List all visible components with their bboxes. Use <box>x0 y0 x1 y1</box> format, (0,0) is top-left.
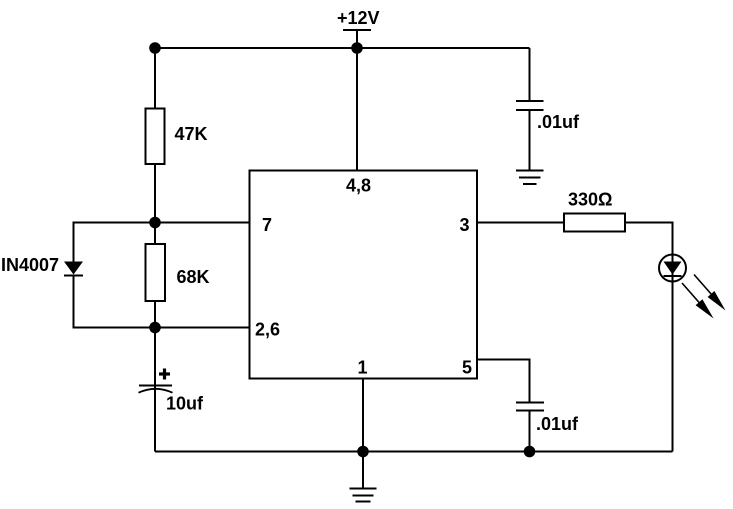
wire bottom ground rail <box>155 451 673 453</box>
junction dot node 2,6 <box>149 322 161 334</box>
resistor R3 330ohm <box>564 190 625 232</box>
svg-text:IN4007: IN4007 <box>1 255 59 275</box>
wire pin 5 to C2 <box>477 360 530 403</box>
wire node 7 to diode anode <box>74 222 156 224</box>
wire pin 1 to ground <box>362 379 364 488</box>
junction dot top-left <box>149 42 161 54</box>
wire top supply rail <box>155 47 530 49</box>
light arrow 2 <box>682 283 714 319</box>
svg-text:.01uf: .01uf <box>537 112 580 132</box>
power terminal +12V <box>337 8 380 30</box>
capacitor C2 .01uf <box>516 403 579 435</box>
diode D1 IN4007 <box>1 255 83 276</box>
svg-text:.01uf: .01uf <box>536 414 579 434</box>
wire top rail down to C3 <box>529 48 531 101</box>
light arrow 1 <box>694 275 726 311</box>
op-amp U1 555 timer body <box>250 171 478 379</box>
wire C3 to ground <box>529 110 531 170</box>
svg-text:47K: 47K <box>175 124 208 144</box>
capacitor C1 10uf polarized <box>139 369 205 414</box>
svg-text:2,6: 2,6 <box>255 320 280 340</box>
wire R1 to node 7 <box>154 164 156 223</box>
wire rail down to R1 <box>154 48 156 109</box>
wire +12V feed down to pins 4,8 <box>356 30 358 170</box>
LED D2 <box>659 255 686 282</box>
svg-text:68K: 68K <box>177 267 210 287</box>
wire node 7 to pin 7 <box>155 222 249 224</box>
resistor R2 68K <box>146 223 210 328</box>
capacitor C3 .01uf <box>516 101 580 132</box>
wire node 2,6 down through C1 to bottom rail <box>154 328 156 452</box>
svg-text:330Ω: 330Ω <box>568 190 612 210</box>
junction dot at +12V rail <box>351 42 363 54</box>
svg-text:7: 7 <box>262 215 272 235</box>
junction dot node 7 <box>149 217 161 229</box>
wire diode cathode to node 2,6 <box>74 276 156 328</box>
wire pin 3 to R3 <box>477 222 564 224</box>
wire diode anode drop <box>73 222 75 263</box>
svg-text:1: 1 <box>358 358 368 378</box>
wire R3 to LED branch corner <box>625 223 673 452</box>
svg-text:4,8: 4,8 <box>346 176 371 196</box>
svg-text:10uf: 10uf <box>166 394 204 414</box>
resistor R1 47K <box>146 109 208 165</box>
junction dot pin1 / bottom rail <box>357 446 369 458</box>
ground GND2 <box>516 171 544 185</box>
svg-text:5: 5 <box>462 358 472 378</box>
wire node 2,6 to pin 2,6 <box>155 327 249 329</box>
ground GND1 <box>350 489 377 502</box>
junction dot C2 / bottom rail <box>524 446 536 458</box>
wire C2 to bottom rail <box>529 411 531 452</box>
svg-text:+12V: +12V <box>337 8 380 28</box>
svg-text:3: 3 <box>460 215 470 235</box>
